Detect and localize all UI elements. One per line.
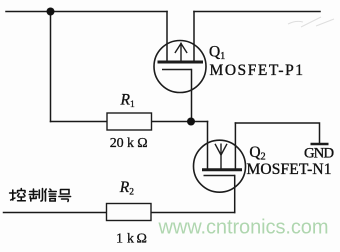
transistor Q2 (N-channel MOSFET) [194,140,246,192]
Q2 gate bar [204,175,235,177]
wire Q2 gate lead [234,176,236,213]
ground [311,143,329,146]
制 [29,189,37,201]
wire Q2 source lead [234,123,236,169]
wire top-left horizontal [6,11,167,13]
wire Q2 source to GND [235,123,319,143]
wire top-right horizontal [194,11,320,13]
号 [59,190,71,202]
node junction dot A [47,8,55,16]
信 [45,189,47,201]
resistor R2 [107,204,152,221]
svg-text:1kΩ: 1kΩ [116,232,147,247]
Q1 channel bar [158,61,204,64]
node junction dot B [187,118,195,126]
wire Q1 gate lead [191,70,193,122]
Q1 substrate arrow stem [180,43,182,61]
wire Q2 gate to R2 [151,212,235,214]
Q2 channel bar [202,168,242,171]
svg-text:MOSFET-N1: MOSFET-N1 [247,161,332,178]
label control-signal (Chinese glyphs drawn as paths) [10,189,71,202]
Q2 body circle [194,140,246,192]
wire R2 left [4,212,107,214]
wire left vertical from junction [50,12,52,122]
transistor Q1 (P-channel MOSFET) [154,41,206,93]
svg-text:www.cntronics.com: www.cntronics.com [158,216,329,238]
Q2 substrate arrow stem [220,144,222,169]
wire Q1 source lead [166,12,168,62]
wire R1 right to Q2 drain corner [152,121,208,123]
wire to R1 left [51,121,108,123]
Q1 gate bar [162,69,192,71]
Q2 substrate arrow wings [215,144,227,155]
wire Q1 drain lead [193,12,195,62]
svg-text:20 k Ω: 20 k Ω [110,136,148,151]
faint scan noise top-right [288,17,334,27]
resistor R1 [107,113,152,130]
Q1 substrate arrow head [175,44,187,54]
Q1 body circle [154,41,206,93]
wire Q2 drain lead [207,122,209,170]
svg-text:GND: GND [304,145,334,161]
控 [10,190,16,200]
